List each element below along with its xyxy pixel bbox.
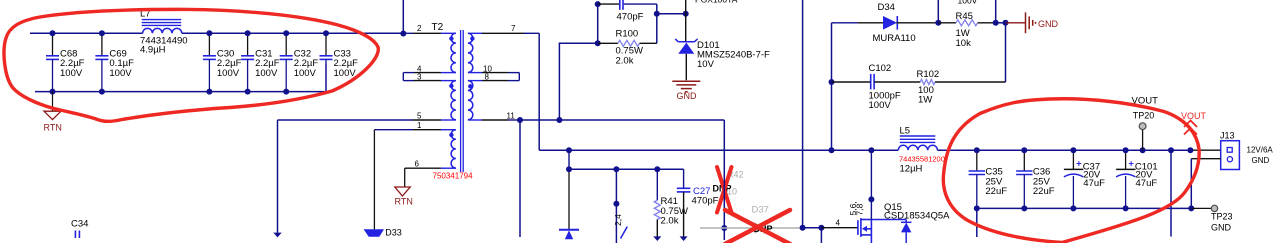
svg-text:11: 11 (507, 112, 516, 121)
svg-text:7: 7 (511, 24, 516, 33)
ground RTN at T2 pin6 (395, 168, 413, 206)
svg-text:100V: 100V (869, 100, 892, 111)
connector J13 (1220, 131, 1239, 170)
node bottom rail J13 gnd (1188, 205, 1194, 211)
wire horizontal-2 (569, 168, 684, 170)
svg-text:8: 8 (485, 73, 490, 82)
svg-text:1W: 1W (918, 95, 932, 106)
T2 secondary winding 2 (468, 81, 473, 120)
svg-text:5: 5 (417, 112, 422, 121)
resistor R102 (917, 69, 1006, 106)
T2 primary winding 2 (451, 81, 456, 120)
diode D101 zener (675, 14, 770, 81)
inductor L7 (140, 9, 188, 56)
test point TP20 (1132, 95, 1159, 150)
svg-text:R100: R100 (616, 29, 639, 40)
ground GND under D101 (672, 81, 700, 92)
wire top input bus left segment (30, 32, 143, 34)
svg-text:L5: L5 (900, 126, 911, 137)
net label VOUT red (1181, 111, 1207, 135)
svg-text:100V: 100V (217, 68, 240, 79)
node horizontal-2 at x616 (613, 166, 619, 172)
Q15 drain riser (870, 150, 872, 219)
svg-text:100V: 100V (255, 68, 278, 79)
capacitor 470pF snubber (cut at top) (598, 0, 657, 23)
junction dots bottom bus (50, 89, 290, 95)
svg-text:10k: 10k (956, 38, 972, 49)
node horizontal-2 at R41 (654, 166, 660, 172)
svg-text:VOUT: VOUT (1181, 111, 1207, 121)
wire R45 to GND stub (996, 22, 1006, 24)
wire output rail horizontal-1 (539, 149, 898, 151)
capacitor C33 (320, 33, 359, 79)
wire riser x938 to top edge (937, 0, 939, 23)
wire top input bus right segment (182, 32, 403, 34)
wire bottom input bus (35, 64, 326, 92)
node rail C101 (1123, 147, 1129, 153)
pins 10/8 of T2 shorted box (468, 64, 519, 81)
resistor R42 DNP labels (713, 169, 744, 196)
node snubber mid junction (654, 11, 660, 17)
pin 7 of T2 (468, 24, 539, 33)
svg-text:J13: J13 (1220, 131, 1235, 141)
wire C102 to R102 row (1005, 23, 1007, 82)
node D101 branch junction (683, 11, 689, 17)
diode D33 (cut off at bottom) (364, 130, 402, 238)
capacitor C34 (cut off at bottom) (71, 219, 88, 239)
port arrow bottom of pin5 wire (273, 120, 281, 237)
red X over R42 (717, 167, 732, 213)
wire pin7 vertical to output rail (538, 33, 540, 150)
svg-text:D37: D37 (752, 204, 769, 215)
T2 secondary winding 1 (468, 33, 473, 72)
node rail J13 (1187, 147, 1193, 153)
wire D101 top vertical from top edge (685, 0, 687, 14)
svg-text:100V: 100V (109, 68, 132, 79)
svg-text:10V: 10V (697, 59, 715, 70)
T2 secondary winding 2 polarity dot (468, 84, 472, 88)
svg-text:+: + (1129, 158, 1134, 168)
node x616 drain junction (613, 201, 619, 207)
junction dots top bus (50, 30, 330, 36)
ground power bar at x569 (559, 230, 579, 239)
node bottom rail C35 (974, 205, 980, 211)
wire x616 column to bottom edge (615, 169, 617, 243)
red X over D37 (725, 210, 790, 243)
capacitor C31 (241, 33, 280, 91)
svg-text:47uF: 47uF (1136, 178, 1158, 189)
T2 primary winding 1 (451, 33, 456, 72)
svg-text:12µH: 12µH (900, 163, 923, 174)
svg-text:47uF: 47uF (1083, 178, 1105, 189)
transistor Q15 MOSFET (858, 218, 872, 243)
node gate row at x821 (818, 225, 824, 231)
capacitor C69 (95, 33, 134, 91)
ground GND rotated right (1006, 12, 1036, 33)
pin 5 of T2 wire to left port (278, 112, 457, 121)
svg-text:D34: D34 (878, 2, 895, 13)
node junction bus to T2 pin 2 (400, 31, 406, 37)
node pin11 junction B (556, 117, 562, 123)
inductor L5 (898, 126, 945, 175)
svg-text:100V: 100V (334, 68, 357, 79)
T2 primary winding 2 polarity dot (449, 84, 453, 88)
svg-text:470pF: 470pF (692, 196, 719, 207)
svg-text:3: 3 (417, 73, 422, 82)
T2 core (461, 30, 464, 172)
resistor R100 (598, 29, 657, 67)
node rail at x831 (829, 147, 835, 153)
wire gate row (803, 227, 822, 229)
svg-text:6: 6 (415, 160, 420, 169)
wire snubber right vertical (656, 4, 658, 43)
node x569 at horizontal-2 (566, 166, 572, 172)
wire VOUT sense drop at x1171 (1170, 150, 1172, 236)
svg-text:PGX100TA: PGX100TA (695, 0, 738, 4)
svg-text:GND: GND (1038, 19, 1059, 29)
svg-text:2.0k: 2.0k (616, 55, 634, 66)
annotation red ellipse left (4, 9, 378, 121)
wire snubber left vertical (597, 4, 599, 43)
wire D34 loop left vertical (831, 23, 833, 150)
svg-text:100V: 100V (60, 68, 83, 79)
Q15 body diode (871, 220, 911, 243)
node C102 row left (829, 79, 835, 85)
wire x821 stub to bottom edge (820, 228, 822, 243)
node GND branch junction (1003, 20, 1009, 26)
wire snubber to D101 branch (657, 13, 686, 15)
node snubber cap top-left (595, 1, 601, 7)
wire pin11 bus (520, 119, 724, 121)
node rail C36 (1021, 147, 1027, 153)
svg-text:TP20: TP20 (1133, 110, 1155, 120)
wire vertical A from top edge to gate row (802, 0, 804, 228)
node rail at Q15 drain (868, 147, 874, 153)
svg-text:C34: C34 (71, 219, 88, 230)
node Q15 drain junction (868, 196, 874, 202)
svg-text:4: 4 (836, 219, 841, 228)
Q15 labels (884, 202, 950, 222)
capacitor C37 polarized (1064, 150, 1105, 208)
node rail sense (1168, 147, 1174, 153)
wire output bottom rail (977, 207, 1192, 209)
capacitor C27 (677, 169, 719, 241)
node D34 cathode junction (935, 20, 941, 26)
svg-text:22uF: 22uF (1033, 186, 1055, 197)
T2 primary winding 3 polarity dot (449, 133, 453, 137)
svg-text:C102: C102 (869, 63, 892, 74)
node R100 left junction (595, 40, 601, 46)
node rail C35 (974, 147, 980, 153)
svg-text:1: 1 (417, 121, 422, 130)
svg-text:GND: GND (1252, 156, 1270, 165)
wire C35 stub below rail (976, 208, 978, 237)
T2 primary winding 3 (451, 130, 456, 168)
node bottom rail C36 (1021, 205, 1027, 211)
wire x569 vertical to ground (568, 150, 570, 169)
svg-text:4.9µH: 4.9µH (140, 45, 166, 56)
capacitor C101 polarized (1116, 150, 1158, 208)
svg-text:100V: 100V (294, 68, 317, 79)
capacitor C32 (280, 33, 319, 91)
pins 4/3 of T2 shorted box (403, 64, 456, 81)
node gate row at x724 (721, 225, 727, 231)
svg-text:74435581200: 74435581200 (899, 155, 945, 164)
wire output rail after L5 (938, 149, 1191, 151)
capacitor C30 (203, 33, 242, 91)
svg-text:RTN: RTN (395, 197, 413, 207)
svg-text:CSD18534Q5A: CSD18534Q5A (884, 211, 950, 222)
svg-text:12V/6A: 12V/6A (1247, 145, 1274, 154)
wire J13 GND branch (1191, 158, 1221, 160)
svg-text:RTN: RTN (44, 123, 62, 133)
svg-text:2: 2 (417, 24, 422, 33)
svg-text:+: + (1076, 158, 1081, 168)
svg-text:GND: GND (677, 91, 698, 101)
pin 4 gate lead of Q15 (821, 219, 858, 228)
J13 pin labels (1247, 145, 1274, 165)
svg-text:D33: D33 (385, 227, 402, 237)
wire T2 pin2 vertical from top edge (402, 0, 404, 34)
wire pin11 bus corner down at x724 (723, 120, 725, 240)
svg-text:GND: GND (1211, 223, 1232, 233)
wire riser pin11 to R100 row (559, 43, 597, 120)
wire riser x996 to top edge (995, 0, 997, 23)
ground RTN under C68 (44, 92, 62, 133)
svg-text:TP23: TP23 (1211, 212, 1233, 222)
resistor R45 (938, 11, 995, 49)
node bottom rail C101 (1123, 205, 1129, 211)
annotation red ellipse right (943, 99, 1199, 243)
node bottom rail C37 (1070, 205, 1076, 211)
node rail TP20 (1140, 147, 1146, 153)
node gate row at x802 (800, 225, 806, 231)
svg-text:22uF: 22uF (985, 186, 1007, 197)
partial device edge at x616 bottom (621, 227, 628, 239)
test point TP23 (1191, 205, 1232, 232)
wire output rail black segment to J13 (1190, 149, 1221, 151)
pin 2 of T2 (403, 24, 456, 33)
diode D37 DNP grey (700, 204, 803, 234)
T2 primary winding 1 polarity dot (449, 36, 453, 40)
node pin11 junction A (517, 117, 523, 123)
svg-text:2,4: 2,4 (613, 214, 623, 226)
diode D34 (832, 2, 939, 44)
capacitor C102 (832, 63, 921, 111)
node rail at x569 (566, 147, 572, 153)
resistor R41 (653, 169, 688, 241)
svg-text:470pF: 470pF (617, 12, 644, 23)
pin 1 of T2 wire to D33 (374, 121, 456, 130)
pin 11 of T2 (468, 112, 520, 121)
svg-text:T2: T2 (432, 22, 444, 33)
capacitor C35 (969, 150, 1008, 208)
wire pin11 drop to bottom edge (519, 120, 521, 237)
pin 6 of T2 (405, 160, 456, 169)
node R45 right junction (993, 20, 999, 26)
svg-text:7,8: 7,8 (855, 203, 865, 215)
node rail C37 (1070, 147, 1076, 153)
svg-text:R102: R102 (917, 69, 940, 80)
capacitor C68 (46, 33, 85, 91)
capacitor C36 (1016, 150, 1055, 208)
svg-text:MURA110: MURA110 (873, 33, 916, 44)
svg-text:100V: 100V (958, 0, 978, 6)
svg-text:750341794: 750341794 (433, 172, 474, 181)
svg-text:2.0k: 2.0k (661, 216, 679, 227)
Q15 pin numbers rotated (848, 201, 865, 215)
T2 secondary winding 1 polarity dot (470, 36, 474, 40)
